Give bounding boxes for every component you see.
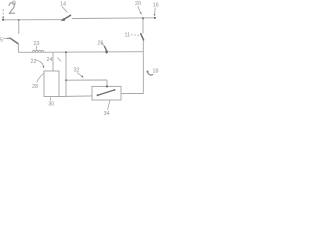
svg-text:34: 34 (104, 111, 110, 117)
svg-text:11: 11 (125, 33, 131, 39)
svg-text:18: 18 (153, 69, 159, 75)
svg-text:16: 16 (153, 3, 159, 9)
svg-text:14: 14 (60, 2, 66, 8)
svg-text:24: 24 (47, 57, 53, 63)
svg-text:30: 30 (48, 102, 54, 108)
svg-text:23: 23 (34, 41, 40, 47)
svg-text:22: 22 (31, 59, 37, 65)
svg-text:5: 5 (0, 38, 3, 44)
svg-text:26: 26 (98, 41, 104, 47)
svg-text:28: 28 (32, 84, 38, 90)
svg-text:32: 32 (74, 68, 80, 74)
svg-text:20: 20 (135, 1, 141, 7)
